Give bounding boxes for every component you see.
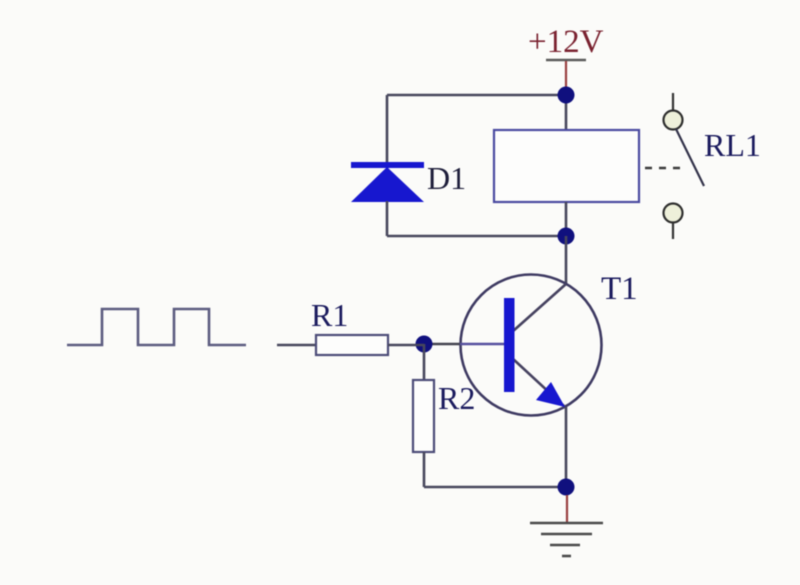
svg-text:D1: D1 xyxy=(427,160,466,196)
emitter line xyxy=(512,358,565,407)
input square wave xyxy=(67,309,246,345)
wire input to R1 xyxy=(277,344,316,347)
svg-text:RL1: RL1 xyxy=(704,127,761,163)
node A junction xyxy=(558,87,575,104)
switch arm RL1 xyxy=(676,129,704,186)
wire R1 to node D xyxy=(388,344,424,347)
svg-text:+12V: +12V xyxy=(528,24,604,60)
collector line xyxy=(512,284,566,332)
wire node D to R2 top xyxy=(423,344,426,380)
power bar xyxy=(546,59,586,62)
node C junction (emitter/ground) xyxy=(558,479,575,496)
emitter arrow xyxy=(536,382,565,407)
wire top horizontal to diode xyxy=(387,94,566,97)
wire base inside symbol xyxy=(460,343,504,346)
dashed actuator line xyxy=(645,167,684,170)
relay contact bottom circle xyxy=(664,204,683,223)
wire node A to relay top xyxy=(565,95,568,130)
svg-text:T1: T1 xyxy=(601,271,638,307)
wire stub above top contact xyxy=(672,93,674,110)
wire bottom horizontal to node C xyxy=(424,486,566,489)
wire diode top vertical xyxy=(386,95,389,163)
diode D1 xyxy=(351,165,424,202)
wire stub below bottom contact xyxy=(672,223,674,239)
wire diode bottom vertical xyxy=(386,201,389,236)
svg-text:R1: R1 xyxy=(311,297,348,333)
ground xyxy=(530,523,603,556)
transistor T1 body circle xyxy=(461,275,602,416)
node B junction xyxy=(558,228,575,245)
wire supply stub xyxy=(565,61,567,94)
wire bottom horizontal to node B xyxy=(387,235,566,238)
wire relay bottom to node B xyxy=(565,202,568,236)
wire base horizontal xyxy=(424,343,462,346)
relay contact top circle xyxy=(664,111,683,130)
wire emitter down to node C xyxy=(565,407,568,487)
wire node B to collector xyxy=(565,236,568,284)
wire ground stub xyxy=(566,495,568,522)
svg-text:R2: R2 xyxy=(438,380,475,416)
resistor R1 xyxy=(316,335,388,355)
base bar xyxy=(504,298,515,392)
relay coil K1 xyxy=(494,130,639,202)
wire R2 bottom xyxy=(423,452,426,487)
resistor R2 xyxy=(413,380,434,452)
node D junction (base) xyxy=(416,336,433,353)
